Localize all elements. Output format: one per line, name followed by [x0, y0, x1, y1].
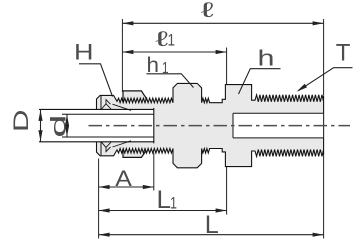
- extension line at panel left face (for l, l1): [121, 19, 123, 92]
- tube: [39, 109, 154, 141]
- svg-text:d: d: [47, 114, 70, 137]
- svg-text:L: L: [157, 186, 172, 214]
- svg-text:h: h: [258, 45, 275, 70]
- svg-text:1: 1: [168, 31, 176, 50]
- extension line at end face (for l, L): [323, 19, 325, 239]
- extension line at hex left face (for l1, L1): [226, 48, 228, 215]
- svg-text:T: T: [336, 40, 351, 67]
- nut inner face ring: [100, 96, 102, 155]
- svg-text:ℓ: ℓ: [201, 0, 214, 22]
- svg-text:A: A: [115, 166, 132, 191]
- dimension D (tube OD): [40, 109, 42, 141]
- body socket taper lines: [113, 104, 132, 147]
- tube bore lines (d extension): [62, 114, 154, 137]
- dimension l1: [122, 51, 226, 53]
- svg-text:D: D: [9, 110, 33, 133]
- svg-text:L: L: [205, 211, 219, 239]
- dimension A: [99, 186, 154, 188]
- fitting body silhouette: nut, bulkhead thread, locknut h1, hex h, male thread T: [97, 83, 324, 167]
- bulkhead panel lower section: [123, 148, 146, 157]
- ferrules inside nut (top): [102, 100, 112, 109]
- bulkhead panel upper section: [123, 91, 146, 103]
- male end bore: [233, 113, 323, 138]
- dimension L: [99, 234, 324, 236]
- svg-text:H: H: [74, 39, 94, 64]
- center axis line: [89, 125, 351, 127]
- tube end face inside fitting: [153, 108, 155, 143]
- extension line at tube end (for A): [153, 153, 155, 191]
- tube outer diameter lines: [39, 109, 154, 141]
- dimension l: [122, 22, 323, 24]
- dimension L1: [99, 210, 227, 212]
- dimension d (tube bore): [66, 114, 68, 137]
- svg-text:1: 1: [170, 194, 177, 213]
- extension line at nut face (for A, L1, L): [98, 159, 100, 239]
- ferrules inside nut (bottom): [102, 142, 112, 151]
- svg-text:1: 1: [162, 60, 169, 77]
